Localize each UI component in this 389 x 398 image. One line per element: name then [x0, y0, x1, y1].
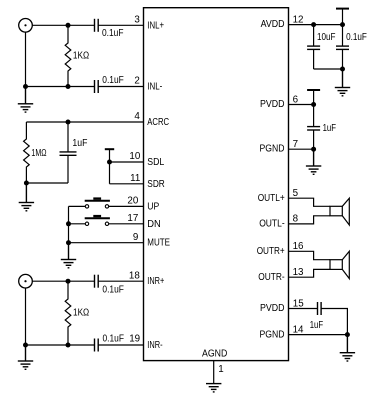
svg-text:1uF: 1uF — [72, 138, 87, 149]
svg-text:AGND: AGND — [202, 348, 227, 359]
node junction PGND14 — [345, 332, 350, 337]
node junction SDL — [107, 160, 112, 165]
svg-text:AVDD: AVDD — [261, 19, 285, 30]
wire INR+ from J2 to C4 — [32, 280, 94, 282]
node junction R3 bottom — [66, 343, 71, 348]
svg-text:0.1uF: 0.1uF — [102, 28, 124, 39]
wire J1 stem down — [25, 32, 27, 86]
svg-text:0.1uF: 0.1uF — [102, 75, 124, 86]
node junction cap rail — [340, 67, 345, 72]
ground G4 — [18, 345, 33, 369]
wire OUTL- pin 8 — [289, 216, 331, 224]
node junction J2 stem — [23, 343, 28, 348]
wire C2 to pin 2 — [98, 86, 143, 88]
wire OUTL+ pin 5 — [289, 198, 331, 206]
wire J2 stem down — [25, 288, 27, 345]
svg-text:1uF: 1uF — [310, 320, 323, 331]
svg-text:OUTL-: OUTL- — [259, 219, 285, 230]
wire DN pin 17 — [69, 223, 144, 225]
svg-text:PVDD: PVDD — [260, 303, 285, 314]
svg-text:INL+: INL+ — [147, 20, 164, 31]
svg-text:3: 3 — [134, 15, 140, 26]
ground G8 — [206, 384, 221, 392]
svg-text:20: 20 — [127, 196, 138, 207]
speaker LS1 — [330, 198, 349, 225]
resistor R1 1KOhm — [65, 25, 71, 86]
header stub SDL — [105, 149, 114, 184]
svg-text:SDR: SDR — [147, 179, 165, 190]
svg-text:12: 12 — [293, 14, 304, 25]
node junction C7 top — [340, 22, 345, 27]
wire C9 to PGND rail — [321, 309, 347, 335]
capacitor C3 1uF — [60, 122, 77, 183]
svg-text:0.1uF: 0.1uF — [102, 285, 124, 296]
wire INL+ from J1 to C1 — [32, 24, 94, 26]
wire INL- rail — [26, 86, 95, 88]
svg-text:INR-: INR- — [147, 340, 162, 351]
svg-text:INR+: INR+ — [147, 276, 164, 287]
capacitor C4 0.1uF plates — [95, 275, 99, 288]
ground G1 — [18, 87, 33, 113]
connector J2 (left input R) — [19, 274, 33, 288]
node junction C6 top — [311, 22, 316, 27]
wire AVDD pin 12 — [289, 24, 343, 26]
node junction C3 top — [66, 120, 71, 125]
wire AVDD cap bottom rail — [314, 68, 343, 70]
svg-text:1MΩ: 1MΩ — [31, 148, 46, 159]
ground G6 — [306, 149, 321, 174]
header stub PVDD supply — [307, 90, 320, 105]
resistor R2 1MOhm — [24, 122, 30, 183]
svg-text:8: 8 — [293, 214, 299, 225]
wire PVDD pin 15 — [289, 308, 318, 310]
svg-text:1KΩ: 1KΩ — [73, 50, 89, 61]
node junction PGND7 — [311, 147, 316, 152]
resistor R3 1KOhm — [65, 281, 71, 345]
svg-text:9: 9 — [133, 232, 138, 243]
svg-text:10uF: 10uF — [317, 32, 336, 43]
capacitor C5 0.1uF plates — [95, 339, 99, 352]
speaker LS2 — [330, 251, 349, 278]
capacitor C1 0.1uF plates — [95, 19, 99, 32]
pushbutton SW1 UP — [85, 197, 110, 208]
IC U1 outline — [144, 8, 289, 361]
svg-text:0.1uF: 0.1uF — [346, 32, 367, 43]
svg-text:1KΩ: 1KΩ — [73, 308, 89, 319]
svg-text:2: 2 — [134, 76, 139, 87]
node junction R1 bottom — [66, 84, 71, 89]
wire OUTR- pin 13 — [289, 269, 331, 277]
svg-text:DN: DN — [147, 219, 161, 230]
connector J1 (left input L) — [19, 19, 33, 33]
wire button common vertical — [68, 206, 70, 242]
wire C4 to pin 18 — [98, 280, 143, 282]
wire AGND pin 1 — [213, 361, 215, 384]
wire SDL pin 10 — [110, 161, 144, 163]
wire PVDD pin 6 — [289, 104, 314, 106]
ground G7 — [340, 335, 355, 361]
svg-text:1: 1 — [218, 364, 223, 375]
node junction R2 bottom — [24, 181, 29, 186]
wire bottom rail ACRC — [26, 182, 68, 184]
svg-text:OUTR-: OUTR- — [258, 272, 285, 283]
svg-text:17: 17 — [127, 213, 138, 224]
capacitor C9 1uF plates — [318, 302, 322, 315]
node junction at J1 stem — [23, 84, 28, 89]
svg-text:4: 4 — [134, 111, 140, 122]
ground G2 — [19, 183, 34, 211]
header stub AVDD supply — [336, 9, 349, 25]
node junction R3 top — [66, 279, 71, 284]
wire OUTR+ pin 16 — [289, 251, 331, 259]
svg-text:14: 14 — [293, 324, 304, 335]
svg-text:1uF: 1uF — [323, 123, 336, 134]
ground G5 — [335, 69, 350, 96]
wire MUTE pin 9 — [69, 242, 144, 244]
wire UP pin 20 — [69, 205, 144, 207]
svg-text:11: 11 — [130, 173, 140, 184]
wire INR- rail — [26, 344, 95, 346]
ground G3 — [61, 243, 76, 268]
svg-text:6: 6 — [293, 94, 299, 105]
node junction DN — [66, 221, 71, 226]
svg-text:OUTR+: OUTR+ — [257, 246, 285, 257]
capacitor C7 0.1uF — [336, 25, 349, 69]
capacitor C8 1uF — [307, 105, 320, 150]
node junction J1a — [66, 23, 71, 28]
wire ACRC pin 4 — [26, 121, 143, 123]
capacitor C2 0.1uF plates — [95, 80, 99, 93]
svg-text:19: 19 — [129, 334, 140, 345]
svg-text:PGND: PGND — [260, 144, 285, 155]
capacitor C6 10uF — [307, 25, 320, 69]
node junction MUTE — [66, 240, 71, 245]
svg-text:10: 10 — [129, 151, 140, 162]
wire SDR pin 11 — [110, 183, 144, 185]
wire PGND pin 7 — [289, 148, 314, 150]
wire PGND pin 14 — [289, 334, 348, 336]
svg-text:0.1uF: 0.1uF — [103, 334, 125, 345]
svg-text:OUTL+: OUTL+ — [258, 193, 285, 204]
svg-text:PVDD: PVDD — [260, 99, 285, 110]
svg-text:MUTE: MUTE — [147, 238, 170, 249]
svg-text:PGND: PGND — [260, 329, 285, 340]
wire C5 to pin 19 — [98, 344, 143, 346]
svg-text:7: 7 — [293, 139, 298, 150]
svg-text:5: 5 — [293, 188, 299, 199]
svg-text:16: 16 — [293, 241, 304, 252]
svg-text:ACRC: ACRC — [147, 117, 169, 128]
svg-text:UP: UP — [147, 202, 159, 213]
svg-text:SDL: SDL — [147, 157, 164, 168]
svg-text:15: 15 — [293, 298, 304, 309]
svg-text:18: 18 — [129, 270, 140, 281]
pushbutton SW2 DN — [85, 215, 110, 226]
svg-text:13: 13 — [293, 267, 304, 278]
node junction PVDD6 — [311, 102, 316, 107]
svg-text:INL-: INL- — [147, 82, 162, 93]
wire C1 to pin 3 — [98, 24, 143, 26]
